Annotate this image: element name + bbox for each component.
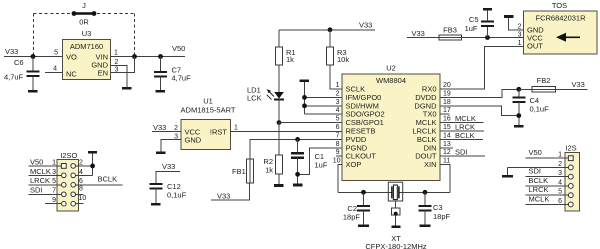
junction C7 node xyxy=(158,54,163,59)
svg-text:1: 1 xyxy=(518,40,522,47)
svg-text:3: 3 xyxy=(174,134,178,141)
wire LED cathode to node xyxy=(278,99,280,122)
svg-text:!RST: !RST xyxy=(210,128,228,137)
svg-text:10: 10 xyxy=(333,158,341,165)
node MCLK / wire pin6 xyxy=(526,194,569,205)
ground below R2 xyxy=(274,184,284,187)
optical receiver TOS FCR6842031R xyxy=(524,1,597,54)
ground below C12 xyxy=(151,203,161,206)
junction C1 bottom / PGND xyxy=(295,172,300,177)
svg-text:TOS: TOS xyxy=(552,1,567,10)
svg-text:9: 9 xyxy=(52,197,56,204)
node BCLK / wire pin6 xyxy=(76,174,123,185)
svg-text:6: 6 xyxy=(336,124,340,131)
svg-text:C5: C5 xyxy=(469,15,479,24)
capacitor C2 xyxy=(343,192,370,225)
svg-text:EN: EN xyxy=(98,69,108,78)
svg-text:V33: V33 xyxy=(153,123,166,132)
svg-text:U3: U3 xyxy=(82,29,92,38)
svg-text:2: 2 xyxy=(115,59,119,66)
capacitor C5 xyxy=(465,11,494,38)
svg-text:1: 1 xyxy=(52,159,56,166)
svg-text:LRCK: LRCK xyxy=(30,176,50,185)
pin numbers U2 right xyxy=(443,82,451,165)
wire ground stem pins 2-4 xyxy=(304,82,306,114)
svg-text:9: 9 xyxy=(336,149,340,156)
svg-text:1: 1 xyxy=(336,82,340,89)
svg-text:MCLK: MCLK xyxy=(529,194,550,203)
svg-text:4: 4 xyxy=(558,179,562,186)
ground below U1 GND xyxy=(156,151,166,154)
svg-text:1k: 1k xyxy=(265,166,273,175)
svg-text:BCLK: BCLK xyxy=(455,131,475,140)
regulator U3 ADM7160 xyxy=(63,29,111,80)
svg-text:10: 10 xyxy=(79,195,87,202)
wire dashed right vertical xyxy=(134,14,136,56)
resistor R2 xyxy=(263,155,282,175)
ferrite bead FB1 xyxy=(232,159,254,183)
svg-text:I2S: I2S xyxy=(565,144,576,153)
svg-text:3: 3 xyxy=(558,170,562,177)
svg-text:4: 4 xyxy=(79,169,83,176)
wire DVDD pin19 to FB2/C4 xyxy=(440,89,519,97)
junction C2 xyxy=(361,190,366,195)
svg-text:U2: U2 xyxy=(386,64,396,73)
node LRCK / wire pin15 xyxy=(440,122,484,131)
wire TOS GND pin2 xyxy=(509,18,524,30)
capacitor C3 xyxy=(419,192,451,225)
wire V33 to VCC pin2 xyxy=(152,131,181,133)
svg-text:FB3: FB3 xyxy=(443,26,457,35)
svg-text:4: 4 xyxy=(336,107,340,114)
svg-text:LRCK: LRCK xyxy=(529,185,549,194)
svg-text:2: 2 xyxy=(336,90,340,97)
wire crystal bottom right xyxy=(399,191,450,193)
wire EN pin3 tied to VIN xyxy=(111,57,135,73)
node MCLK / wire pin16 xyxy=(440,114,484,123)
node SDI / wire pin12 xyxy=(440,148,485,157)
ground bar above pins 2-4 xyxy=(300,80,310,83)
connector I2S xyxy=(565,144,579,212)
svg-text:5: 5 xyxy=(558,189,562,196)
wire pin9 stub xyxy=(45,197,62,204)
svg-text:8: 8 xyxy=(336,141,340,148)
resistor R3 xyxy=(326,47,349,65)
svg-text:0,1uF: 0,1uF xyxy=(530,105,550,114)
capacitor C12 xyxy=(150,182,187,203)
svg-text:GND: GND xyxy=(185,136,202,145)
svg-text:FB2: FB2 xyxy=(537,76,551,85)
wire FB2 to V33 xyxy=(556,88,588,90)
ground below C1 xyxy=(293,184,303,187)
svg-text:V50: V50 xyxy=(30,157,43,166)
svg-text:4,7uF: 4,7uF xyxy=(172,74,192,83)
svg-text:18: 18 xyxy=(443,99,451,106)
node LRCK / wire pin5 xyxy=(29,176,62,185)
svg-text:20: 20 xyxy=(443,82,451,89)
wire node to U2 CSB/GPO1 pin5 xyxy=(279,122,342,124)
svg-text:4,7uF: 4,7uF xyxy=(4,73,24,82)
svg-text:7: 7 xyxy=(52,188,56,195)
ground above C5 xyxy=(483,8,492,11)
svg-text:12: 12 xyxy=(443,149,451,156)
node BCLK / wire pin4 xyxy=(526,176,569,187)
wire to SDI/HWM pin3 xyxy=(305,105,343,107)
wire VIN to V50 xyxy=(111,56,185,58)
wire CLKOUT pin9 stub xyxy=(336,155,342,157)
ground at I2S pin2 xyxy=(502,175,513,178)
ground below U3 GND xyxy=(122,87,132,90)
wire DIN pin13 stub xyxy=(440,147,453,149)
wire GND pin3 xyxy=(161,140,181,152)
svg-text:19: 19 xyxy=(443,90,451,97)
ground below crystal case xyxy=(392,226,401,229)
node MCLK / wire pin3 xyxy=(29,167,62,176)
connector I2SO xyxy=(57,151,79,211)
wire XOP pin10 to crystal xyxy=(338,165,342,193)
svg-text:V33: V33 xyxy=(162,162,175,171)
node SDI / wire pin7 xyxy=(29,186,62,195)
svg-text:3: 3 xyxy=(336,99,340,106)
wire R3 to U2 SCLK pin1 xyxy=(330,65,342,89)
svg-text:18pF: 18pF xyxy=(433,212,451,221)
svg-text:13: 13 xyxy=(443,141,451,148)
wire crystal bottom left xyxy=(338,191,392,193)
svg-text:16: 16 xyxy=(443,116,451,123)
svg-text:V33: V33 xyxy=(412,29,425,38)
svg-text:MCLK: MCLK xyxy=(30,167,51,176)
wire dashed left of J xyxy=(34,13,72,15)
svg-text:1uF: 1uF xyxy=(465,24,478,33)
ground above TOS pin2 xyxy=(504,15,513,18)
wire pin8 stub xyxy=(76,186,84,195)
svg-text:11: 11 xyxy=(443,158,450,165)
node BCLK / wire pin14 xyxy=(440,131,483,140)
svg-text:5: 5 xyxy=(336,116,340,123)
svg-text:2: 2 xyxy=(79,159,83,166)
junction at C6 xyxy=(31,54,36,59)
svg-text:V33: V33 xyxy=(572,80,585,89)
svg-text:SDI: SDI xyxy=(455,148,468,157)
wire TX0 pin17 stub xyxy=(440,113,450,115)
wire R1 to LED xyxy=(278,65,280,92)
pin numbers U2 left xyxy=(333,82,341,165)
svg-text:CFPX-180-12MHz: CFPX-180-12MHz xyxy=(365,242,427,249)
wire V33 to TOS VCC pin3 xyxy=(407,37,524,39)
node LRCK / wire pin5 xyxy=(526,185,569,196)
svg-text:XOP: XOP xyxy=(346,160,362,169)
svg-text:V33: V33 xyxy=(359,21,372,30)
svg-text:FCR6842031R: FCR6842031R xyxy=(535,14,586,23)
node V50 / wire pin1 xyxy=(526,148,569,159)
wire pin4 to ground xyxy=(76,153,93,175)
svg-text:10k: 10k xyxy=(337,55,349,64)
junction DGND/C4 xyxy=(516,113,521,118)
svg-text:17: 17 xyxy=(443,107,451,114)
junction VIN/EN node xyxy=(132,54,137,59)
node SDI / wire pin3 xyxy=(526,167,569,178)
svg-text:1k: 1k xyxy=(286,55,294,64)
svg-text:15: 15 xyxy=(443,124,451,131)
wire junction to FB2 xyxy=(519,88,532,90)
svg-text:1: 1 xyxy=(114,50,118,57)
svg-text:J: J xyxy=(82,1,86,10)
svg-text:5: 5 xyxy=(52,178,56,185)
svg-text:3: 3 xyxy=(52,169,56,176)
LED LD1 xyxy=(247,86,284,103)
svg-text:1: 1 xyxy=(234,125,238,132)
svg-text:XIN: XIN xyxy=(424,160,437,169)
resistor R1 xyxy=(275,47,295,65)
wire V33 to FB1 xyxy=(211,183,250,200)
junction C1 top xyxy=(295,137,300,142)
junction pin2/pin4 ground xyxy=(90,164,95,169)
svg-text:SDI: SDI xyxy=(30,186,43,195)
svg-text:6: 6 xyxy=(558,198,562,205)
svg-text:7: 7 xyxy=(336,132,340,139)
svg-text:2: 2 xyxy=(174,125,178,132)
svg-text:SDI: SDI xyxy=(529,167,542,176)
ground below C7 xyxy=(156,90,166,93)
wire dashed left vertical xyxy=(33,14,35,56)
svg-text:BCLK: BCLK xyxy=(529,176,549,185)
wire rail to R3 xyxy=(329,30,331,47)
wire R2 to ground xyxy=(278,174,280,184)
svg-text:ADM7160: ADM7160 xyxy=(70,42,103,51)
junction C5 xyxy=(485,35,490,40)
svg-text:8: 8 xyxy=(79,186,83,193)
capacitor C7 xyxy=(154,57,191,91)
svg-text:V50: V50 xyxy=(529,148,542,157)
capacitor C4 xyxy=(512,89,549,125)
svg-text:1: 1 xyxy=(558,152,562,159)
wire pin2 to ground xyxy=(508,161,568,175)
wire to SDO/GPO2 pin4 xyxy=(305,113,343,115)
wire node down to R2 xyxy=(278,123,280,155)
wire V33 to U3 pin5 xyxy=(4,56,62,58)
svg-text:FB1: FB1 xyxy=(232,167,246,176)
wire FB1 to PVDD pin7 xyxy=(250,139,342,159)
svg-text:14: 14 xyxy=(443,132,451,139)
junction pin2 gnd xyxy=(302,95,307,100)
IC U2 WM8804 xyxy=(342,64,440,181)
wire pin2 to ground xyxy=(76,159,93,166)
svg-text:4: 4 xyxy=(53,66,57,73)
svg-text:ADM1815-5ART: ADM1815-5ART xyxy=(181,106,236,115)
ferrite bead FB3 xyxy=(439,26,461,41)
wire PGND pin8 to C1 bottom xyxy=(298,148,342,175)
svg-text:0R: 0R xyxy=(79,18,89,27)
svg-text:2: 2 xyxy=(518,24,522,31)
crystal XT CFPX-180-12MHz xyxy=(365,182,427,249)
svg-text:U1: U1 xyxy=(203,97,213,106)
svg-text:18pF: 18pF xyxy=(343,213,361,222)
svg-text:OUT: OUT xyxy=(527,42,543,51)
svg-text:5: 5 xyxy=(54,50,58,57)
ferrite bead FB2 xyxy=(532,76,556,92)
wire XIN pin11 to crystal xyxy=(440,165,450,193)
node V50 / wire pin1 xyxy=(29,157,62,166)
jumper J xyxy=(72,1,97,27)
svg-text:BCLK: BCLK xyxy=(98,174,118,183)
junction R3 at rail xyxy=(328,27,333,32)
svg-text:V50: V50 xyxy=(172,44,185,53)
svg-text:I2SO: I2SO xyxy=(60,151,77,160)
svg-text:C6: C6 xyxy=(14,58,24,67)
junction C4/FB2 xyxy=(516,87,521,92)
junction C3 xyxy=(423,190,428,195)
svg-text:0,1uF: 0,1uF xyxy=(167,191,187,200)
svg-text:2: 2 xyxy=(558,161,562,168)
wire pin10 stub xyxy=(76,195,87,204)
supervisor U1 ADM1815-5ART xyxy=(181,97,236,150)
wire to IFM/GPO0 pin2 xyxy=(305,96,343,98)
capacitor C6 xyxy=(4,57,40,91)
ground above I2SO xyxy=(88,151,97,154)
svg-text:1uF: 1uF xyxy=(315,161,328,170)
svg-text:VO: VO xyxy=(66,53,77,62)
svg-text:WM8804: WM8804 xyxy=(376,76,406,85)
junction pin3 gnd xyxy=(302,103,307,108)
ground below C4 xyxy=(514,125,524,128)
junction LED/R2/CSB node xyxy=(277,120,282,125)
wire rail to R1 xyxy=(278,30,280,47)
svg-text:NC: NC xyxy=(66,70,77,79)
wire TOS OUT pin1 to RX0 pin20 xyxy=(440,47,524,90)
wire DGND pin18 xyxy=(440,106,519,116)
wire V33 stub to C12 xyxy=(156,172,180,185)
svg-text:LCK: LCK xyxy=(247,94,262,103)
svg-text:6: 6 xyxy=(79,178,83,185)
ground below C2 xyxy=(358,225,369,228)
capacitor C1 xyxy=(291,139,328,183)
wire V33 rail xyxy=(279,29,375,31)
svg-text:V33: V33 xyxy=(5,47,18,56)
pin 4 NC stub xyxy=(45,66,62,73)
svg-text:C3: C3 xyxy=(433,203,443,212)
wire GND pin2 xyxy=(111,66,127,88)
ground below C6 xyxy=(28,90,38,93)
wire !RST to U2 RESETB xyxy=(231,131,343,133)
wire dashed right of J xyxy=(97,13,135,15)
ground below C3 xyxy=(420,225,431,228)
